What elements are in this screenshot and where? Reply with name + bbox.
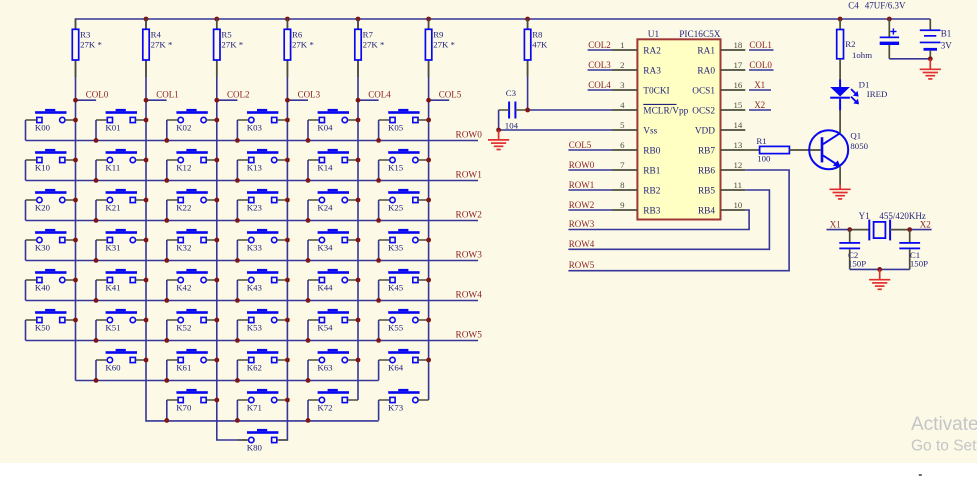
switch K03 (237, 109, 287, 140)
svg-text:K14: K14 (317, 163, 333, 173)
pin 18 RA1 (697, 40, 745, 57)
diode D1 IRED (830, 80, 887, 111)
junction K04 left (306, 138, 311, 143)
junction K45 right (426, 278, 431, 283)
switch K13 (237, 149, 287, 181)
switch K15 (379, 149, 429, 181)
svg-text:COL4: COL4 (368, 90, 391, 100)
junction K10 right (73, 158, 78, 163)
junction K44 left (306, 298, 311, 303)
svg-text:COL5: COL5 (439, 90, 462, 100)
switch K50 (26, 309, 76, 341)
switch K61 (167, 349, 217, 381)
switch K22 (167, 189, 217, 221)
junction K22 left (164, 218, 169, 223)
switch K32 (167, 229, 217, 261)
junction crystal ground (877, 267, 882, 272)
svg-text:R3: R3 (80, 30, 91, 40)
pin 16 OCS1 (692, 80, 745, 97)
svg-text:14: 14 (734, 120, 743, 130)
wire COL0 from pin 17 (749, 69, 774, 71)
junction K32 left (164, 258, 169, 263)
switch K44 (308, 269, 358, 301)
svg-text:K72: K72 (317, 403, 332, 413)
junction K61 right (214, 358, 219, 363)
junction K63 left (306, 378, 311, 383)
switch K01 (96, 109, 146, 140)
svg-text:K63: K63 (317, 363, 333, 373)
wire column COL5 vertical (428, 19, 430, 400)
svg-text:COL5: COL5 (569, 140, 592, 150)
svg-text:3: 3 (620, 80, 625, 90)
junction K34 left (306, 258, 311, 263)
junction K11 right (144, 158, 149, 163)
switch K45 (379, 269, 429, 301)
pin 13 RB7 (698, 140, 745, 157)
junction K31 right (144, 238, 149, 243)
svg-text:OCS1: OCS1 (692, 86, 715, 96)
svg-text:K34: K34 (317, 243, 333, 253)
junction K21 right (144, 198, 149, 203)
svg-text:ROW2: ROW2 (569, 200, 595, 210)
svg-text:K01: K01 (105, 123, 120, 133)
svg-text:PIC16C5X: PIC16C5X (679, 30, 721, 40)
wire column COL2 vertical and row7 feed (217, 19, 248, 440)
svg-text:C3: C3 (506, 88, 517, 98)
pin 7 RB1 (612, 160, 661, 177)
wire COL5 to pin 6 (568, 149, 612, 151)
junction crystal left (847, 227, 852, 232)
junction K43 left (235, 298, 240, 303)
svg-text:K04: K04 (317, 123, 333, 133)
switch K11 (96, 149, 146, 181)
junction K20 right (73, 198, 78, 203)
svg-text:B1: B1 (941, 29, 952, 39)
junction K72 left (306, 418, 311, 423)
junction K35 right (426, 238, 431, 243)
ground at Q1 (830, 185, 851, 199)
junction K02 right (214, 118, 219, 123)
svg-text:K43: K43 (247, 283, 263, 293)
svg-text:47UF/6.3V: 47UF/6.3V (865, 0, 906, 10)
svg-text:K35: K35 (388, 243, 404, 253)
wire column COL3 vertical (279, 19, 287, 440)
switch K70 (167, 389, 217, 421)
junction crystal right (907, 227, 912, 232)
resistor R2 1ohm (837, 19, 872, 80)
wire C3 left to ground and pin5 (499, 109, 510, 111)
svg-text:9: 9 (620, 200, 625, 210)
pin 1 RA2 (612, 40, 661, 57)
junction K55 right (426, 318, 431, 323)
wire COL1 from pin 18 (749, 49, 774, 51)
pin 17 RA0 (697, 60, 745, 77)
junction C3 right (525, 108, 530, 113)
svg-text:COL0: COL0 (86, 90, 109, 100)
junction K05 left (376, 138, 381, 143)
svg-text:K23: K23 (247, 203, 263, 213)
svg-text:R9: R9 (433, 30, 444, 40)
svg-text:RA3: RA3 (643, 66, 661, 76)
svg-text:R6: R6 (292, 30, 303, 40)
svg-text:RB6: RB6 (698, 166, 715, 176)
wire X1 stub (827, 229, 850, 231)
junction K05 right (426, 118, 431, 123)
svg-text:Y1: Y1 (859, 211, 870, 221)
junction K63 right (356, 358, 361, 363)
capacitor C2 150P (839, 230, 866, 270)
resistor R4 27K (143, 19, 173, 77)
wire ROW4 (26, 300, 479, 302)
junction K33 left (235, 258, 240, 263)
switch K34 (308, 229, 358, 261)
svg-text:27K *: 27K * (433, 40, 455, 50)
svg-text:K71: K71 (247, 403, 262, 413)
svg-text:Q1: Q1 (850, 130, 861, 140)
junction C3 ground (496, 128, 501, 133)
wire ROW5 (26, 340, 479, 342)
wire ROW1 (26, 180, 479, 182)
svg-text:K33: K33 (247, 243, 263, 253)
svg-text:COL3: COL3 (588, 60, 611, 70)
junction K43 right (285, 278, 290, 283)
svg-text:16: 16 (734, 80, 743, 90)
svg-text:150P: 150P (910, 258, 928, 268)
switch K30 (26, 229, 76, 261)
junction K62 right (285, 358, 290, 363)
junction K12 right (214, 158, 219, 163)
junction K41 left (94, 298, 99, 303)
svg-text:K52: K52 (176, 323, 191, 333)
svg-text:IRED: IRED (867, 89, 888, 99)
junction K55 left (376, 338, 381, 343)
svg-text:Go to Settings to activate Win: Go to Settings to activate Windows. (911, 438, 977, 455)
svg-text:K42: K42 (176, 283, 191, 293)
pin 2 RA3 (612, 60, 661, 77)
junction K24 left (306, 218, 311, 223)
junction K52 right (214, 318, 219, 323)
svg-text:3V: 3V (941, 40, 953, 50)
svg-text:OCS2: OCS2 (692, 106, 715, 116)
svg-text:27K *: 27K * (221, 40, 243, 50)
junction K61 left (164, 378, 169, 383)
junction K53 right (285, 318, 290, 323)
junction K24 right (356, 198, 361, 203)
wire ROW1 to pin 8 (568, 189, 612, 191)
svg-text:K54: K54 (317, 323, 333, 333)
svg-text:ROW1: ROW1 (569, 180, 595, 190)
svg-text:K64: K64 (388, 363, 404, 373)
svg-text:K13: K13 (247, 163, 263, 173)
junction K52 left (164, 338, 169, 343)
svg-text:100: 100 (757, 154, 771, 164)
junction K31 left (94, 258, 99, 263)
svg-text:7: 7 (620, 160, 625, 170)
pin 15 OCS2 (692, 100, 745, 117)
svg-text:K12: K12 (176, 163, 191, 173)
svg-text:K11: K11 (105, 163, 120, 173)
switch K35 (379, 229, 429, 261)
svg-text:8: 8 (620, 180, 625, 190)
svg-text:K32: K32 (176, 243, 191, 253)
tiny screen artifact bottom edge (919, 474, 922, 476)
switch K73 (379, 389, 429, 421)
svg-text:R5: R5 (221, 30, 232, 40)
svg-text:COL0: COL0 (749, 60, 772, 70)
svg-text:K20: K20 (35, 203, 51, 213)
switch K12 (167, 149, 217, 181)
svg-text:ROW4: ROW4 (456, 290, 483, 300)
svg-text:K25: K25 (388, 203, 404, 213)
ground at C3 (488, 130, 509, 150)
junction K64 right (426, 358, 431, 363)
switch K64 (379, 349, 429, 381)
junction K30 right (73, 238, 78, 243)
svg-text:27K *: 27K * (151, 40, 173, 50)
svg-text:Activate Windows: Activate Windows (911, 414, 977, 435)
switch K33 (237, 229, 287, 261)
junction K62 left (235, 378, 240, 383)
svg-text:X2: X2 (920, 219, 931, 229)
svg-text:K60: K60 (105, 363, 121, 373)
svg-text:R4: R4 (151, 30, 162, 40)
svg-text:COL1: COL1 (156, 90, 179, 100)
junction K70 right (214, 398, 219, 403)
switch K43 (237, 269, 287, 301)
svg-text:5: 5 (620, 120, 625, 130)
wire ROW3 (26, 260, 479, 262)
svg-text:12: 12 (734, 160, 743, 170)
svg-text:T0CKI: T0CKI (643, 86, 669, 96)
svg-text:K44: K44 (317, 283, 333, 293)
svg-text:K05: K05 (388, 123, 404, 133)
svg-text:RA1: RA1 (697, 46, 715, 56)
wire column COL1 vertical and row6 feed (146, 19, 379, 421)
svg-text:K15: K15 (388, 163, 404, 173)
junction K42 left (164, 298, 169, 303)
junction K71 right (285, 398, 290, 403)
svg-text:1ohm: 1ohm (852, 50, 872, 60)
junction K23 left (235, 218, 240, 223)
junction K32 right (214, 238, 219, 243)
wire C4 bottom to battery (889, 58, 930, 60)
svg-text:4: 4 (620, 100, 625, 110)
junction K14 left (306, 178, 311, 183)
wire LED to transistor (839, 110, 841, 133)
junction K34 right (356, 238, 361, 243)
switch K63 (308, 349, 358, 381)
junction K03 left (235, 138, 240, 143)
svg-text:X1: X1 (830, 219, 841, 229)
junction K13 left (235, 178, 240, 183)
ground at crystal (869, 269, 890, 289)
junction K22 right (214, 198, 219, 203)
switch K24 (308, 189, 358, 221)
switch K31 (96, 229, 146, 261)
resistor R7 27K (355, 19, 385, 77)
svg-text:K70: K70 (176, 403, 192, 413)
svg-text:C4: C4 (848, 0, 859, 10)
svg-text:K03: K03 (247, 123, 263, 133)
junction K14 right (356, 158, 361, 163)
junction K70 left (164, 418, 169, 423)
svg-text:27K *: 27K * (80, 40, 102, 50)
svg-text:COL4: COL4 (588, 80, 611, 90)
wire X1 from pin 16 (749, 89, 771, 91)
pin 4 MCLR/Vpp (612, 100, 689, 117)
pin 6 RB0 (612, 140, 661, 157)
capacitor C3 104 (505, 88, 519, 131)
junction battery ground (928, 56, 933, 61)
switch K05 (379, 109, 429, 140)
svg-text:RA2: RA2 (643, 46, 661, 56)
switch K54 (308, 309, 358, 341)
pin 11 RB5 (698, 180, 745, 197)
svg-text:13: 13 (734, 140, 743, 150)
resistor R1 100 (745, 136, 821, 163)
svg-text:6: 6 (620, 140, 625, 150)
switch K23 (237, 189, 287, 221)
net label COL3 (285, 90, 321, 103)
net label COL5 (426, 90, 462, 103)
battery B1 3V (920, 19, 953, 59)
svg-text:RB2: RB2 (643, 186, 660, 196)
transistor Q1 8050 (809, 130, 868, 169)
wire COL3 to pin 2 (588, 69, 612, 71)
junction K23 right (285, 198, 290, 203)
svg-text:K41: K41 (105, 283, 120, 293)
wire ROW4 from pin 11 (568, 190, 769, 249)
svg-text:X1: X1 (754, 80, 765, 90)
capacitor C1 150P (899, 230, 928, 270)
svg-text:18: 18 (734, 40, 743, 50)
svg-text:K02: K02 (176, 123, 191, 133)
junction K42 right (214, 278, 219, 283)
svg-text:R8: R8 (532, 30, 543, 40)
svg-text:RB1: RB1 (643, 166, 660, 176)
switch K14 (308, 149, 358, 181)
junction K45 left (376, 298, 381, 303)
wire R8 branch vertical (527, 19, 529, 110)
junction K12 left (164, 178, 169, 183)
switch K62 (237, 349, 287, 381)
pin 12 RB6 (698, 160, 745, 177)
svg-text:K55: K55 (388, 323, 404, 333)
pin 10 RB4 (698, 200, 745, 217)
svg-text:K51: K51 (105, 323, 120, 333)
junction K44 right (356, 278, 361, 283)
capacitor C4 47UF/6.3V (848, 0, 906, 58)
svg-text:K21: K21 (105, 203, 120, 213)
op-amp U1 PIC16C5X body (637, 30, 720, 220)
junction K53 left (235, 338, 240, 343)
junction K03 right (285, 118, 290, 123)
svg-text:ROW2: ROW2 (456, 210, 483, 220)
switch K41 (96, 269, 146, 301)
switch K53 (237, 309, 287, 341)
svg-text:27K *: 27K * (363, 40, 385, 50)
switch K25 (379, 189, 429, 221)
junction dots on power bus (144, 17, 892, 22)
svg-text:1: 1 (620, 40, 624, 50)
svg-text:K73: K73 (388, 403, 404, 413)
svg-text:K31: K31 (105, 243, 120, 253)
junction K15 left (376, 178, 381, 183)
wire top power bus (76, 19, 931, 381)
svg-text:VDD: VDD (695, 126, 715, 136)
svg-text:RB4: RB4 (698, 206, 715, 216)
svg-text:K61: K61 (176, 363, 191, 373)
switch K10 (26, 149, 76, 181)
svg-text:8050: 8050 (850, 141, 868, 151)
net label COL0 (73, 90, 109, 103)
svg-text:K45: K45 (388, 283, 404, 293)
junction K51 left (94, 338, 99, 343)
wire row6 feed from COL0 (76, 380, 379, 382)
junction K71 left (235, 418, 240, 423)
svg-text:RB3: RB3 (643, 206, 660, 216)
switch K51 (96, 309, 146, 341)
svg-text:17: 17 (734, 60, 743, 70)
junction K50 right (73, 318, 78, 323)
wire COL2 to pin 1 (588, 49, 612, 51)
svg-text:11: 11 (734, 180, 742, 190)
net label COL1 (144, 90, 179, 103)
switch K52 (167, 309, 217, 341)
junction K01 left (94, 138, 99, 143)
pin 8 RB2 (612, 180, 661, 197)
svg-text:ROW5: ROW5 (569, 260, 595, 270)
svg-text:27K *: 27K * (292, 40, 314, 50)
resistor R5 27K (214, 19, 244, 77)
svg-text:MCLR/Vpp: MCLR/Vpp (643, 106, 688, 116)
svg-text:Vss: Vss (643, 126, 657, 136)
junction K15 right (426, 158, 431, 163)
crystal Y1 455/420KHz (850, 211, 926, 240)
svg-text:ROW0: ROW0 (456, 130, 483, 140)
switch K00 (26, 109, 76, 140)
junction K13 right (285, 158, 290, 163)
svg-text:15: 15 (734, 100, 743, 110)
pin 3 T0CKI (612, 80, 670, 97)
svg-text:2: 2 (620, 60, 624, 70)
junction K04 right (356, 118, 361, 123)
svg-text:RB0: RB0 (643, 146, 660, 156)
wire X2 stub (910, 229, 932, 231)
junction K40 right (73, 278, 78, 283)
wire X2 from pin 15 (749, 109, 771, 111)
svg-text:U1: U1 (648, 30, 660, 40)
junction K54 left (306, 338, 311, 343)
resistor R3 27K (72, 19, 102, 77)
svg-text:ROW4: ROW4 (569, 239, 595, 249)
wire ROW3 from pin 10 (568, 210, 749, 230)
svg-text:ROW1: ROW1 (456, 170, 483, 180)
junction K60 right (144, 358, 149, 363)
svg-text:47K: 47K (532, 40, 548, 50)
wire ROW0 to pin 7 (568, 169, 612, 171)
net label COL2 (214, 90, 249, 103)
svg-text:RB5: RB5 (698, 186, 715, 196)
junction K02 left (164, 138, 169, 143)
pin 5 Vss (612, 120, 658, 137)
svg-text:X2: X2 (754, 100, 765, 110)
svg-text:K22: K22 (176, 203, 191, 213)
svg-text:COL1: COL1 (749, 40, 772, 50)
svg-text:COL3: COL3 (298, 90, 321, 100)
switch K20 (26, 189, 76, 221)
wire ROW0 (26, 140, 479, 142)
